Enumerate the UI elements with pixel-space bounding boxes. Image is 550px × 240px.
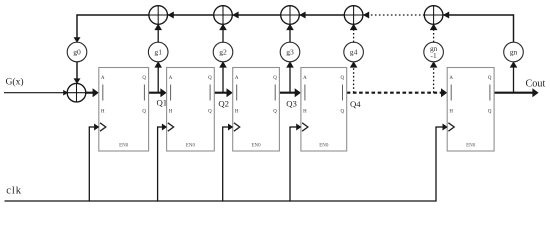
svg-text:H: H	[449, 109, 453, 114]
node Cout output label	[526, 78, 546, 89]
svg-text:Q: Q	[341, 76, 345, 81]
wire: tap from Q line up into g1 (arrow up)	[154, 61, 162, 92]
svg-text:H: H	[169, 109, 173, 114]
wire: clk riser to FF3 clock input with arrowhead	[222, 124, 233, 202]
node G(x) input label	[6, 77, 24, 88]
wire: top feedback bus from XOR U2 to g0 tap corner	[76, 14, 148, 16]
xor adder U4	[281, 6, 300, 25]
wire: clk riser to FF4 clock input with arrowhead	[289, 124, 301, 202]
wire: tap from Q line up into gn-1 (arrow up)	[430, 61, 438, 92]
coefficient tap g2	[213, 42, 233, 62]
node Q1 label	[157, 98, 168, 108]
node clk label	[6, 185, 22, 196]
coefficient tap gn	[504, 42, 524, 62]
svg-text:Q3: Q3	[286, 98, 297, 108]
svg-text:EN0: EN0	[251, 144, 261, 149]
wire: tap from Cout line up into gn (arrow up)	[510, 61, 518, 92]
svg-text:gn: gn	[510, 48, 518, 57]
wire: right vertical from top bus corner down to gn	[513, 14, 515, 42]
svg-text:H: H	[101, 109, 105, 114]
flip-flop FF2 (D register stage 2)	[167, 68, 215, 152]
wire: top bus XOR U5 to U4 with arrowhead	[299, 12, 344, 19]
wire: Q1 data path FF1 Q to FF2 D with arrowhead	[149, 88, 167, 97]
svg-text:g3: g3	[286, 48, 294, 57]
coefficient tap gn-1	[424, 42, 444, 62]
svg-text:Q: Q	[142, 76, 146, 81]
svg-text:g2: g2	[219, 48, 227, 57]
svg-text:Q1: Q1	[157, 98, 168, 108]
wire: clk rail horizontal	[5, 200, 437, 202]
wire: top bus XOR U4 to U3 with arrowhead	[232, 12, 280, 19]
flip-flop FF1 (D register stage 1)	[99, 68, 149, 152]
xor adder U5	[344, 6, 363, 25]
svg-text:Q: Q	[208, 109, 212, 114]
svg-text:H: H	[235, 109, 239, 114]
xor adder U3	[214, 6, 233, 25]
flip-flop FF4 (D register stage 4)	[301, 68, 347, 152]
svg-text:Q: Q	[142, 109, 146, 114]
wire: tap from Q line up into g2 (arrow up)	[219, 61, 227, 92]
svg-text:Q: Q	[208, 76, 212, 81]
wire: Q4 dashed data path FF4 Q to FF5 D with arrowhead	[347, 88, 448, 97]
svg-text:Cout: Cout	[526, 78, 546, 89]
svg-text:A: A	[449, 76, 453, 81]
svg-text:g4: g4	[350, 48, 358, 57]
svg-text:A: A	[303, 76, 307, 81]
wire: top bus XOR U3 output to XOR U2 (arrow into U2 right)	[168, 12, 214, 19]
svg-text:g0: g0	[73, 48, 81, 57]
flip-flop FF3 (D register stage 3)	[233, 68, 280, 152]
svg-text:Q2: Q2	[218, 98, 229, 108]
xor adder U1 (input summer)	[67, 83, 86, 102]
svg-text:Q: Q	[341, 109, 345, 114]
svg-text:G(x): G(x)	[6, 77, 24, 88]
wire: g1 up into XOR above (arrow up)	[154, 24, 162, 42]
svg-text:EN0: EN0	[466, 144, 476, 149]
wire: tap from Q line up into g3 (arrow up)	[286, 61, 294, 92]
coefficient tap g0	[67, 42, 87, 62]
coefficient tap g4	[344, 42, 364, 62]
wire: top bus from gn corner to XOR U6 with arrowhead	[443, 12, 514, 19]
node Q2 label	[218, 98, 229, 108]
wire: FF5 Q output to Cout with arrowhead	[494, 88, 538, 97]
wire: g3 up into XOR above (arrow up)	[286, 24, 294, 42]
coefficient tap g1	[148, 42, 168, 62]
svg-text:H: H	[303, 109, 307, 114]
svg-text:Q: Q	[488, 76, 492, 81]
xor adder U2 (sum into g1 column)	[149, 6, 168, 25]
wire: dotted top bus XOR U6 to U5 with arrowhead	[363, 12, 424, 19]
wire: Q2 data path FF2 Q to FF3 D with arrowhead	[214, 88, 232, 97]
svg-text:Q: Q	[488, 109, 492, 114]
wire: G(x) input line with arrow into adder U1	[4, 90, 68, 96]
svg-text:EN0: EN0	[186, 144, 196, 149]
xor adder U6	[424, 6, 443, 25]
wire: clk riser to FF5 clock input with arrowhead	[435, 124, 447, 202]
svg-text:EN0: EN0	[119, 144, 129, 149]
wire: clk riser to FF2 clock input with arrowhead	[157, 124, 167, 202]
wire: g4 up into XOR above (arrow up)	[350, 24, 358, 42]
wire: tap from Q line up into g4 (arrow up)	[350, 61, 358, 92]
svg-text:Q: Q	[273, 76, 277, 81]
wire: g0 to input adder U1 with down arrow	[74, 62, 81, 84]
node Q4 label	[350, 99, 361, 109]
svg-text:A: A	[101, 76, 105, 81]
coefficient tap g3	[280, 42, 300, 62]
flip-flop FF5 (D register stage 5)	[447, 68, 494, 152]
svg-text:clk: clk	[6, 185, 22, 196]
wire: Q3 data path FF3 Q to FF4 D with arrowhead	[279, 88, 301, 97]
svg-text:EN0: EN0	[319, 144, 329, 149]
svg-text:-1: -1	[431, 51, 437, 60]
svg-text:Q4: Q4	[350, 99, 361, 109]
wire: clk riser to FF1 clock input with arrowhead	[89, 124, 100, 202]
wire: adder U1 output to FF1 D input	[86, 88, 99, 97]
node Q3 label	[286, 98, 297, 108]
svg-text:Q: Q	[273, 109, 277, 114]
wire: g2 up into XOR above (arrow up)	[219, 24, 227, 42]
wire: gn-1 up into XOR above (arrow up)	[430, 24, 438, 42]
svg-text:A: A	[235, 76, 239, 81]
svg-text:g1: g1	[154, 48, 162, 57]
svg-text:A: A	[169, 76, 173, 81]
wire: g0 column vertical from top bus with arrow into g0	[74, 14, 81, 42]
